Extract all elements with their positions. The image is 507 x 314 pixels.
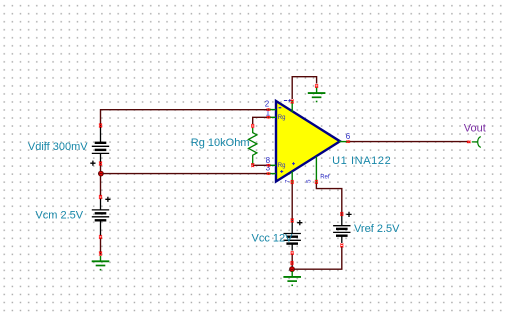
pin 3 stub <box>268 173 276 175</box>
svg-text:Ref: Ref <box>320 174 330 180</box>
V1 bottom terminal crosses <box>99 162 102 166</box>
pin 6 output stub <box>339 141 349 143</box>
junction node A <box>98 171 104 177</box>
wire: Rg bottom to op-amp pin 8 <box>253 164 268 166</box>
svg-text:Vcm 2.5V: Vcm 2.5V <box>35 210 83 222</box>
Rg bottom terminal crosses <box>251 163 254 167</box>
svg-text:2: 2 <box>265 99 270 108</box>
svg-text:Rg: Rg <box>278 163 286 169</box>
V3 polarity + mark <box>297 220 302 225</box>
pin 7 connection crosses <box>291 180 294 184</box>
V1 top terminal crosses <box>99 124 102 128</box>
ground terminal crosses <box>99 252 102 256</box>
plus marker near pin 8 row <box>292 162 295 165</box>
V+ pin label <box>284 99 291 102</box>
junction node B <box>289 266 295 272</box>
wire: node A to op-amp pin 3 (net IN+) <box>101 173 268 175</box>
pin 2 connection crosses <box>267 108 271 111</box>
svg-text:6: 6 <box>346 132 351 141</box>
battery V2 Vcm <box>92 199 109 237</box>
pin V+ top stub <box>291 101 293 113</box>
op-amp U1 INA122 (yellow triangle) <box>276 101 340 182</box>
wire: output pin 6 to Vout terminal <box>350 141 469 143</box>
pin 1 stub <box>268 116 276 118</box>
pin 5 connection crosses <box>315 180 318 184</box>
pin V+ connection crosses <box>291 100 294 104</box>
pin 3 connection crosses <box>267 172 271 175</box>
pin 6 connection crosses <box>346 140 350 143</box>
wire: Vcm minus to ground <box>100 238 102 255</box>
V4 bottom terminal crosses <box>340 244 343 248</box>
Vout terminal crosses <box>467 141 471 144</box>
V3 bottom terminal crosses <box>291 251 294 255</box>
svg-text:U1 INA122: U1 INA122 <box>332 155 391 167</box>
ground (top, at V+ net) <box>308 88 326 102</box>
V3 top terminal crosses <box>291 219 294 223</box>
wire: Vdiff top node to op-amp pin 2 (net IN-) <box>101 110 268 128</box>
svg-text:Vout: Vout <box>464 122 486 134</box>
wire: Vref minus to ground node B <box>294 247 342 270</box>
V4 top terminal crosses <box>340 212 343 216</box>
V4 polarity + mark <box>346 212 351 217</box>
Vout output pin symbol <box>472 137 481 148</box>
battery V1 Vdiff (with terminal pins) <box>92 127 109 163</box>
pin 5 ref stub <box>315 157 317 183</box>
V1 polarity + mark <box>90 161 95 166</box>
pin 8 connection crosses <box>267 164 271 167</box>
ground (below Vcm) <box>92 256 110 270</box>
wire: pin 7 down to Vcc battery <box>291 183 293 220</box>
pin 2 stub <box>268 109 276 111</box>
V2 bottom terminal crosses <box>99 235 102 239</box>
Rg top terminal crosses <box>251 124 254 128</box>
battery V3 Vcc <box>284 220 301 251</box>
V2 polarity + mark <box>105 197 110 202</box>
top ground terminal crosses <box>315 84 318 88</box>
minus input marker <box>279 107 282 109</box>
plus input marker near pin 3 <box>280 170 283 173</box>
svg-text:Vref 2.5V: Vref 2.5V <box>354 223 400 235</box>
ground (bottom center) <box>283 271 301 285</box>
pin 1 connection crosses <box>267 116 271 119</box>
pin 8 stub <box>268 164 276 166</box>
svg-text:Rg: Rg <box>278 115 286 121</box>
battery V4 Vref <box>333 212 350 243</box>
wire: Vdiff minus to node A and down to Vcm <box>100 163 102 197</box>
ground node B terminal crosses <box>290 261 293 265</box>
pin 7 bottom stub <box>291 172 293 183</box>
resistor Rg <box>249 128 257 164</box>
wire: Vcc minus down to ground node B <box>291 254 293 269</box>
wire: V+ pin up and over to top ground <box>292 77 316 99</box>
svg-text:Vdiff 300mV: Vdiff 300mV <box>28 141 88 153</box>
V2 top terminal crosses <box>99 195 102 199</box>
svg-text:Rg 10kOhm: Rg 10kOhm <box>191 137 250 149</box>
wire: op-amp pin 1 to Rg top <box>253 117 268 124</box>
wire: pin 5 ref over to Vref battery <box>316 183 341 212</box>
svg-text:Vcc 12V: Vcc 12V <box>252 233 294 245</box>
